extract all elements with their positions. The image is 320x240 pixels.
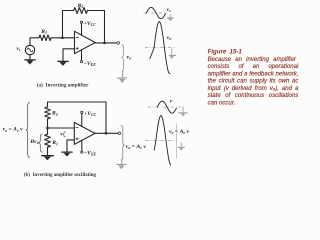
ground (a) vo waveform gray	[169, 48, 176, 58]
wire: VCC to op-amp (b)	[81, 114, 83, 127]
op-amp U2 plus mark (b)	[76, 138, 78, 140]
resistor R1 (a) zigzag	[39, 35, 51, 41]
svg-text:the circuit can supply its own: the circuit can supply its own ac	[208, 79, 299, 85]
ground (b) R1 chain	[42, 155, 54, 157]
svg-text:Figure 15-1: Figure 15-1	[208, 49, 243, 56]
wire: brace to ground (a output, gray)	[122, 71, 124, 77]
node: junction dot R2/R1 (b)	[46, 127, 49, 130]
wire: R1 to ground (b)	[47, 147, 49, 155]
brace: Bvo across R1 (b)	[39, 134, 43, 153]
wire: noninverting input to ground (b)	[67, 140, 74, 152]
ground (a) output gray	[117, 77, 126, 79]
output terminal (b)	[118, 132, 121, 135]
svg-text:consists of an operational: consists of an operational	[208, 64, 299, 70]
svg-text:(b) Inverting amplifier oscil: (b) Inverting amplifier oscillating	[24, 171, 96, 178]
op-amp U1 plus mark (a)	[76, 47, 78, 49]
wire: node to inverting input (b)	[48, 127, 75, 129]
ground (a) source	[29, 55, 31, 60]
wire: R1 to inverting input (a)	[51, 37, 74, 39]
source VS circle (a)	[25, 45, 34, 54]
svg-text:can occur.: can occur.	[208, 100, 236, 106]
source VS sine symbol (a)	[27, 48, 33, 52]
svg-text:Because an inverting amplifier: Because an inverting amplifier	[208, 57, 297, 63]
op-amp U1 minus mark (a)	[76, 36, 78, 38]
waveform vs dash-dot centerline (a)	[144, 12, 167, 14]
waveform v dash-dot centerline (b)	[148, 106, 181, 108]
brace: output vo (a)	[122, 45, 124, 72]
VCC terminal (b)	[81, 111, 83, 113]
wire: op-amp to VEE terminal (a)	[81, 50, 83, 61]
node: junction dot output/feedback (a)	[103, 42, 106, 45]
ground (a) vs waveform gray	[167, 14, 174, 21]
ground (a) noninverting input	[58, 60, 69, 62]
wire: brace to ground (b output, gray)	[121, 160, 123, 164]
ground (b) vo waveform gray	[178, 143, 185, 151]
waveform vo sine (a)	[150, 22, 170, 74]
op-amp U2 triangle (b)	[74, 122, 95, 144]
VCC terminal (a)	[80, 21, 82, 23]
svg-text:amplifier and a feedback netwo: amplifier and a feedback network,	[208, 72, 299, 78]
brace: tiny v brace (b)	[63, 132, 65, 137]
VEE terminal (a)	[80, 61, 82, 63]
wire: (b) top feedback	[48, 102, 107, 133]
node: junction dot R1/feedback (a)	[61, 37, 64, 40]
VEE terminal (b)	[81, 151, 83, 153]
wire: dashed link small-big waveform (a)	[164, 15, 166, 31]
op-amp U2 minus mark (b)	[76, 127, 78, 129]
wire: output (b)	[95, 132, 118, 134]
node: junction dot output/feedback (b)	[105, 132, 108, 135]
wire: op-amp to VEE terminal (b)	[81, 140, 83, 151]
wire: R2 to node (b)	[47, 119, 49, 128]
ground (b) output gray	[117, 163, 126, 165]
ground (b) noninverting input	[62, 151, 72, 153]
wire: noninverting input to ground (a)	[63, 49, 75, 61]
wire: node to R1 (b)	[47, 128, 49, 134]
op-amp U1 triangle (a)	[75, 31, 96, 53]
waveform vo sine (b)	[154, 116, 170, 165]
brace: left big vo=Avv (b)	[26, 102, 30, 157]
wire: (a) source to R1	[30, 38, 39, 46]
wire: dashed link small-big waveform (b)	[156, 109, 158, 127]
waveform vs sine (a)	[146, 7, 165, 18]
wire: output (a)	[95, 42, 117, 44]
svg-text:input (v derived from vₒ), and: input (v derived from vₒ), and a	[208, 86, 299, 92]
resistor R1 (b) zigzag vertical	[45, 134, 51, 147]
output terminal (a)	[117, 42, 120, 45]
svg-text:state of continuous oscillatio: state of continuous oscillations	[208, 93, 299, 99]
wire: (a) feedback top right + right vertical to output	[88, 11, 105, 43]
resistor R2 (a) zigzag	[74, 8, 88, 14]
svg-text:(a) Inverting amplifier: (a) Inverting amplifier	[37, 81, 89, 88]
wire: VCC to op-amp (a)	[81, 24, 83, 36]
resistor R2 (b) zigzag vertical	[45, 107, 51, 119]
waveform vo dash-dot centerline (a)	[145, 47, 176, 49]
waveform v sine (b)	[157, 101, 176, 113]
wire: amplitude marker line (b) vo waveform	[175, 124, 177, 159]
ground (b) v waveform gray	[178, 106, 187, 116]
brace: output vo (b)	[121, 126, 124, 160]
waveform vo dash-dot centerline (b)	[145, 139, 177, 141]
wire: (a) feedback left vertical and top	[63, 11, 74, 38]
